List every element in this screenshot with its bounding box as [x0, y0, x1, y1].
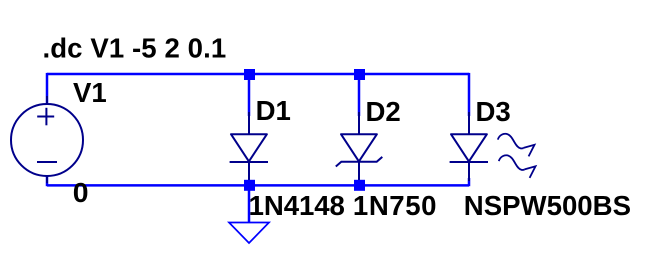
junction D2 bottom	[354, 180, 365, 191]
diode D1	[230, 112, 268, 181]
wire D3 bottom	[468, 178, 471, 186]
svg-text:D3: D3	[476, 96, 511, 127]
LED D3 emission arrow 2	[499, 155, 536, 178]
wire bottom rail	[47, 184, 469, 187]
junction D2 top	[354, 69, 365, 80]
svg-text:NSPW500BS: NSPW500BS	[464, 190, 631, 221]
LED D3 emission arrow 1	[498, 134, 535, 157]
wire D3 top	[468, 73, 471, 116]
wire V1 bottom	[46, 176, 49, 186]
zener diode D2	[336, 112, 383, 181]
wire ground stem	[248, 186, 251, 223]
junction D1 bottom	[244, 180, 255, 191]
LED D3	[450, 112, 488, 181]
voltage source V1	[11, 96, 83, 183]
wire D1 top	[248, 74, 251, 116]
svg-text:D1: D1	[256, 95, 291, 126]
svg-text:V1: V1	[73, 77, 107, 108]
wire top rail	[47, 73, 469, 76]
svg-text:1N750: 1N750	[353, 190, 437, 221]
ground	[229, 223, 269, 244]
svg-text:D2: D2	[366, 96, 401, 127]
svg-text:.dc V1 -5 2 0.1: .dc V1 -5 2 0.1	[43, 32, 227, 63]
wire D2 top	[358, 74, 361, 116]
junction D1 top	[244, 69, 255, 80]
svg-text:1N4148: 1N4148	[249, 190, 345, 221]
wire V1 top	[46, 73, 49, 103]
svg-text:0: 0	[73, 177, 89, 208]
